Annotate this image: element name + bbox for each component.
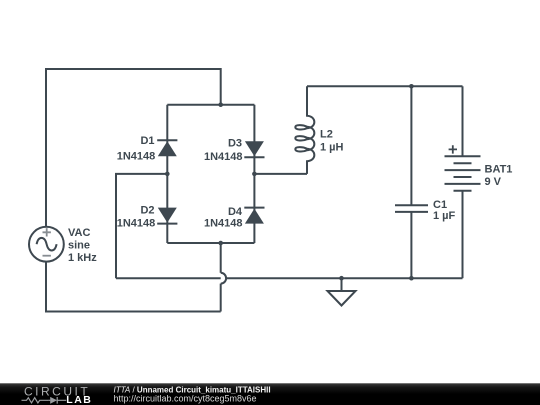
- wire middle-left rail and left drop: [116, 174, 167, 278]
- svg-text:LAB: LAB: [66, 394, 92, 405]
- logo wire doodle with resistor zigzag and diode: [22, 397, 67, 404]
- wire VAC top to bridge top node: [46, 69, 221, 228]
- svg-text:D4: D4: [228, 206, 243, 218]
- svg-text:D1: D1: [140, 135, 154, 147]
- node ground tap: [339, 276, 344, 281]
- inductor L2: [295, 86, 343, 174]
- svg-text:9 V: 9 V: [485, 176, 502, 188]
- svg-text:1 kHz: 1 kHz: [68, 252, 97, 264]
- svg-text:sine: sine: [68, 240, 90, 252]
- wire bridge bottom drop upper segment: [220, 243, 222, 273]
- ground: [328, 278, 356, 305]
- node bridge bottom: [218, 241, 223, 246]
- diode D2: [117, 174, 178, 243]
- node D3-D4 junction: [252, 172, 257, 177]
- diode D1: [117, 105, 178, 174]
- diode D4: [204, 174, 265, 243]
- wire bridge bottom drop lower segment: [220, 284, 222, 312]
- wire ground rail right of hop: [226, 277, 462, 279]
- wire middle-right rail to L2: [254, 173, 307, 175]
- svg-text:D2: D2: [140, 204, 154, 216]
- node ground rail C1 tap: [409, 276, 414, 281]
- voltage source V1 VAC: [29, 227, 97, 264]
- svg-text:BAT1: BAT1: [485, 164, 513, 176]
- svg-text:VAC: VAC: [68, 227, 90, 239]
- svg-text:1 µF: 1 µF: [433, 210, 456, 222]
- svg-text:1N4148: 1N4148: [204, 151, 243, 163]
- node top rail C1 tap: [409, 84, 414, 89]
- wire top bridge rail: [167, 104, 254, 106]
- svg-text:D3: D3: [228, 138, 242, 150]
- node at bridge top: [218, 102, 223, 107]
- capacitor C1: [395, 86, 456, 278]
- diode D3: [204, 105, 265, 174]
- svg-text:1N4148: 1N4148: [204, 218, 243, 230]
- svg-text:http://circuitlab.com/cyt8ceg5: http://circuitlab.com/cyt8ceg5m8v6e: [114, 394, 257, 404]
- wire top right rail: [307, 85, 463, 87]
- svg-text:L2: L2: [320, 129, 333, 141]
- svg-text:1N4148: 1N4148: [117, 150, 156, 162]
- wire bottom bridge rail: [167, 242, 254, 244]
- node D1-D2 junction: [165, 172, 170, 177]
- svg-text:1 µH: 1 µH: [320, 142, 344, 154]
- wire bottom return to VAC minus: [46, 262, 221, 312]
- battery BAT1: [445, 86, 513, 278]
- wire ground rail left of hop: [116, 277, 221, 279]
- wire hop over ground rail: [221, 273, 226, 284]
- svg-text:1N4148: 1N4148: [117, 218, 156, 230]
